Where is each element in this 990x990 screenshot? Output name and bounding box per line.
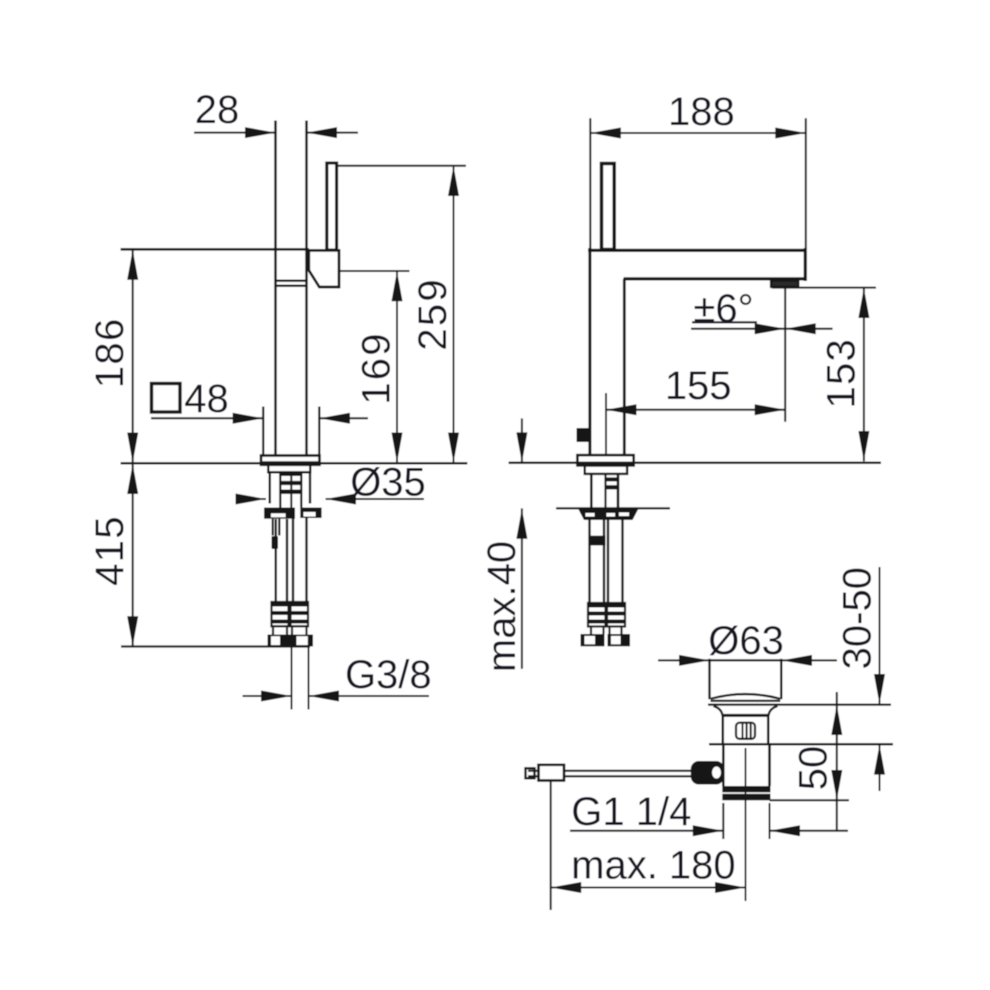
svg-text:48: 48: [184, 377, 229, 421]
svg-text:Ø63: Ø63: [708, 619, 784, 663]
svg-text:259: 259: [411, 277, 455, 350]
svg-text:153: 153: [820, 338, 864, 409]
svg-text:max.40: max.40: [480, 541, 524, 672]
svg-text:188: 188: [668, 90, 735, 134]
svg-text:155: 155: [665, 364, 732, 408]
svg-text:±6°: ±6°: [693, 287, 753, 331]
svg-text:G1 1/4: G1 1/4: [571, 790, 691, 834]
svg-text:186: 186: [88, 317, 132, 388]
svg-text:28: 28: [195, 88, 240, 132]
svg-text:max. 180: max. 180: [571, 844, 736, 888]
svg-text:30-50: 30-50: [836, 567, 880, 669]
svg-text:415: 415: [88, 515, 132, 586]
svg-text:Ø35: Ø35: [350, 461, 426, 505]
svg-text:G3/8: G3/8: [345, 653, 432, 697]
svg-text:169: 169: [354, 331, 398, 404]
svg-text:50: 50: [792, 746, 836, 791]
